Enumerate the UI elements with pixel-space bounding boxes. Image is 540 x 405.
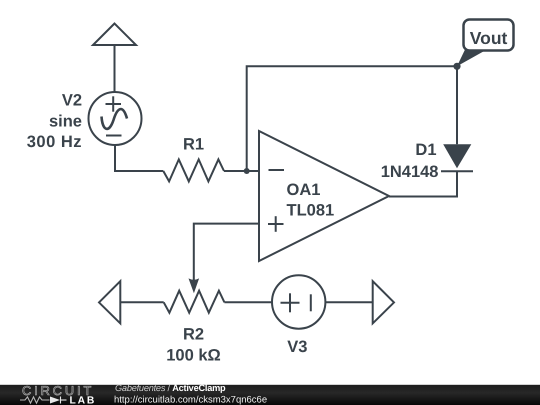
svg-text:R1: R1: [183, 136, 204, 154]
svg-text:sine: sine: [49, 113, 82, 131]
svg-text:LAB: LAB: [70, 395, 97, 405]
svg-text:D1: D1: [415, 141, 436, 159]
svg-text:R2: R2: [183, 326, 204, 344]
svg-text:V2: V2: [62, 92, 82, 110]
svg-text:TL081: TL081: [287, 202, 335, 220]
svg-text:Gabefuentes / ActiveClamp: Gabefuentes / ActiveClamp: [115, 383, 226, 393]
svg-text:V3: V3: [287, 338, 307, 356]
svg-text:OA1: OA1: [287, 181, 321, 199]
svg-text:Vout: Vout: [470, 28, 508, 48]
svg-text:http://circuitlab.com/cksm3x7q: http://circuitlab.com/cksm3x7qn6c6e: [114, 395, 267, 405]
svg-text:100 kΩ: 100 kΩ: [166, 347, 221, 365]
svg-text:300 Hz: 300 Hz: [27, 133, 82, 151]
svg-text:1N4148: 1N4148: [381, 163, 439, 181]
